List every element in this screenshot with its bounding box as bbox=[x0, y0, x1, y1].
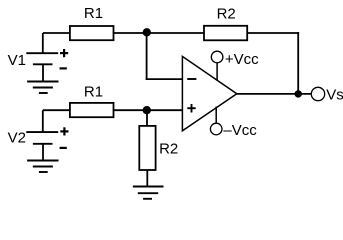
resistor R2 (top) bbox=[204, 26, 247, 41]
-Vcc stub bbox=[215, 107, 217, 123]
-Vcc terminal circle bbox=[210, 123, 222, 135]
svg-text:R2: R2 bbox=[159, 140, 178, 157]
resistor R1 (bottom) bbox=[70, 103, 114, 117]
svg-text:+Vcc: +Vcc bbox=[225, 51, 259, 68]
svg-text:–Vcc: –Vcc bbox=[223, 122, 257, 139]
wire: node down to inverting input bbox=[146, 33, 148, 80]
svg-text:R1: R1 bbox=[84, 5, 103, 22]
V2 plate long bbox=[26, 131, 58, 133]
V1 plate short bbox=[33, 63, 53, 65]
resistor R2 (bottom, vertical) bbox=[139, 126, 155, 170]
op-amp plus marker bbox=[187, 104, 195, 113]
svg-text:Vs: Vs bbox=[326, 87, 343, 104]
svg-text:R1: R1 bbox=[84, 83, 103, 100]
V2 minus sign bbox=[60, 147, 67, 149]
V1 plus sign bbox=[60, 49, 68, 57]
ground (V1) bbox=[27, 82, 58, 94]
wire: R1 to R2 through node bbox=[114, 32, 205, 34]
+Vcc terminal circle bbox=[211, 51, 223, 63]
ground (R2 bottom) bbox=[133, 187, 164, 199]
V1 wire to ground bbox=[42, 64, 44, 81]
node junction dot (output) bbox=[295, 90, 302, 97]
V2 plate short bbox=[33, 143, 53, 145]
output terminal circle Vs bbox=[311, 87, 324, 100]
wire: R1 to non-inverting input bbox=[114, 109, 183, 111]
+Vcc stub bbox=[216, 63, 218, 81]
V2 wire to ground bbox=[42, 144, 44, 161]
V1 minus sign bbox=[60, 67, 67, 69]
resistor R1 (top) bbox=[70, 26, 114, 40]
svg-text:V2: V2 bbox=[8, 129, 26, 146]
node junction dot (bottom) bbox=[143, 106, 151, 114]
wire bottom: V2 to R1 bbox=[43, 109, 71, 111]
wire: node down to R2 (bottom) bbox=[146, 110, 148, 126]
ground (V2) bbox=[27, 161, 58, 173]
op-amp minus marker bbox=[187, 78, 196, 80]
V1 plate long bbox=[26, 52, 58, 54]
wire top: V1 to R1 bbox=[43, 32, 71, 34]
V2 plus sign bbox=[60, 127, 68, 135]
V2 stub wire bbox=[42, 110, 44, 132]
wire: output bbox=[236, 93, 311, 95]
wire: into inverting input bbox=[146, 78, 183, 80]
svg-text:V1: V1 bbox=[8, 52, 26, 69]
V1 stub wire bbox=[42, 33, 44, 53]
wire: R2 to right corner bbox=[247, 32, 299, 34]
svg-text:R2: R2 bbox=[217, 5, 236, 22]
wire: R2 to ground bbox=[146, 170, 148, 187]
node junction dot (top) bbox=[143, 28, 151, 36]
wire: right vertical down to output bbox=[297, 32, 299, 94]
op-amp U1 triangle bbox=[182, 56, 236, 130]
